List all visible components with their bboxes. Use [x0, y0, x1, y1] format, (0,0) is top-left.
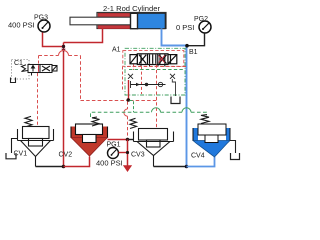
junction dot PG3 line: [62, 45, 65, 48]
cylinder barrel: [97, 13, 166, 29]
pilot line red dashed from C1 to valve area: [39, 51, 158, 101]
left window crossed arrows: [139, 55, 146, 64]
svg-text:400 PSI: 400 PSI: [8, 21, 35, 30]
right window: [159, 55, 161, 64]
svg-text:2-1 Rod Cylinder: 2-1 Rod Cylinder: [103, 4, 160, 13]
right solenoid actuator: [168, 55, 177, 64]
wire red from gauge PG3: [43, 33, 64, 47]
wire red main vertical left: [63, 43, 65, 167]
tank symbol in valve assembly: [171, 79, 180, 104]
wire red gauge PG1 to node: [119, 152, 128, 154]
tank symbol CV4: [231, 153, 240, 160]
wire red CV2 right port to PG1 node: [108, 139, 127, 141]
cartridge valve CV3: [130, 118, 174, 166]
green pilot bus: [91, 108, 207, 117]
cylinder piston: [131, 13, 138, 28]
svg-text:CV1: CV1: [14, 151, 28, 158]
wire CV4 to tank: [230, 141, 236, 154]
cartridge valve CV1: [12, 116, 54, 166]
svg-text:400 PSI: 400 PSI: [96, 159, 123, 168]
cartridge valve CV2: [71, 117, 108, 156]
red dashed box around valve: [123, 51, 184, 67]
pressure gauge PG1: [108, 148, 119, 159]
junction dot bottom left: [62, 165, 66, 169]
red arrow terminal: [123, 165, 132, 172]
pressure gauge PG3: [38, 20, 50, 32]
cylinder rod: [70, 17, 131, 25]
tank symbol below C1: [11, 78, 16, 83]
wire blue from cylinder cap port: [162, 29, 187, 167]
red dashed horizontal under valve: [127, 66, 186, 68]
junction dot PG1 gauge: [126, 151, 129, 154]
junction dot PG1 node: [126, 138, 130, 142]
svg-text:0 PSI: 0 PSI: [176, 23, 194, 32]
cartridge valve CV4: [193, 124, 230, 157]
flow control line in green box: [131, 81, 166, 88]
red dashed A-port drop left of box: [122, 67, 124, 91]
red dashed pilot down to PG1 junction: [127, 102, 129, 110]
pressure gauge PG2: [199, 21, 211, 33]
junction dot pilot node: [127, 98, 131, 102]
middle window arrows: [149, 55, 151, 64]
green pilot link from node: [130, 101, 134, 113]
red position marks on valve: [159, 56, 165, 63]
wire red PG1 node down: [127, 140, 129, 166]
svg-text:CV2: CV2: [59, 152, 73, 159]
red solid pilot stub in box: [128, 80, 130, 100]
wire blue bottom to CV4: [187, 157, 215, 167]
wire red CV2 drop: [64, 157, 90, 167]
flow arrow on red main: [61, 49, 65, 53]
svg-text:B1: B1: [189, 49, 198, 56]
valve port stubs: [141, 65, 165, 67]
svg-text:CV4: CV4: [191, 153, 205, 160]
wire black PG1 node to CV3: [128, 139, 134, 141]
dotted box around C1: [12, 60, 30, 80]
wire black from gauge PG2: [188, 33, 205, 45]
directional valve 4/3: [130, 54, 177, 65]
left solenoid actuator: [130, 55, 137, 64]
orifice X mark right in box: [170, 74, 175, 79]
orifice X mark left in box: [128, 74, 133, 79]
pilot spring on CV4: [201, 115, 209, 124]
junction dot B1 line top: [185, 44, 189, 48]
svg-text:CV3: CV3: [131, 152, 145, 159]
wire red from cylinder rod port: [64, 29, 103, 43]
wire black CV3 to node: [154, 166, 187, 168]
cylinder blue cap chamber: [138, 13, 166, 28]
solenoid valve C1: [22, 65, 58, 76]
svg-text:A1: A1: [112, 47, 121, 54]
pilot line red dashed through C1 down to CV1: [38, 56, 40, 65]
green dash-dot assembly box around valve: [125, 48, 185, 95]
green dashed horizontal under valve: [129, 69, 185, 71]
junction dot bottom right: [185, 165, 189, 169]
wire black CV1 to main: [36, 166, 64, 168]
red dashed pilot to CV3: [156, 65, 158, 129]
tank symbol CV1: [6, 153, 16, 159]
